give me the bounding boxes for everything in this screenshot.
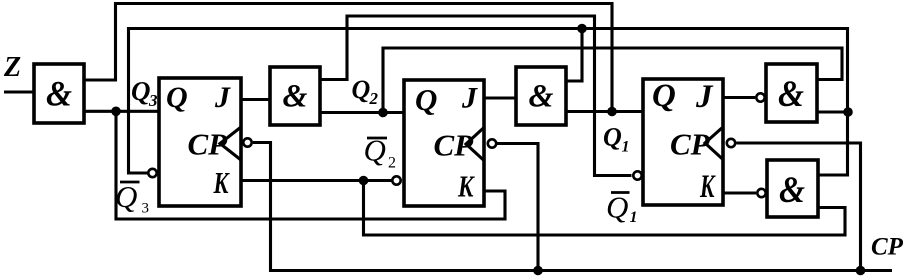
and-gate G2 box: [270, 67, 320, 125]
svg-text:J: J: [214, 81, 231, 114]
svg-text:Q: Q: [415, 82, 437, 117]
wire net Q3bar: FF1 Qbar bubble up to rail y28.5 across to gate G5 upper pin: [129, 29, 848, 176]
wire net Q2 branch: node up to rail y48 across and down to gate G4 upper pin: [383, 48, 842, 113]
svg-text:1: 1: [630, 209, 638, 226]
FF3 Qbar output bubble: [633, 171, 641, 179]
wire J input of FF2 from gate G3 output: [484, 96, 516, 99]
wire net CP branch to FF2 CP bubble: [497, 144, 539, 271]
wire J input of FF1 from gate G2 output: [241, 98, 270, 101]
svg-text:K: K: [699, 169, 715, 205]
FF3 CP inversion bubble: [727, 139, 735, 147]
and-gate G5 box: [767, 160, 818, 217]
gate G4 output inversion bubble: [756, 93, 764, 101]
svg-text:CP: CP: [871, 234, 904, 261]
svg-text:&: &: [529, 79, 554, 115]
svg-text:Q: Q: [603, 123, 622, 152]
label net Q2bar overbar: [367, 137, 387, 140]
svg-text:1: 1: [622, 139, 630, 156]
svg-text:K: K: [213, 165, 230, 200]
wire net Q3bar branch to gate G4 lower pin: [816, 110, 848, 113]
svg-text:3: 3: [142, 201, 150, 217]
junction node Q3 at gate G1 output: [111, 107, 121, 117]
FF2 CP inversion bubble: [488, 139, 496, 147]
svg-text:Q: Q: [364, 133, 386, 168]
svg-text:3: 3: [148, 91, 158, 110]
svg-text:CP: CP: [670, 127, 711, 162]
svg-text:K: K: [457, 169, 475, 204]
svg-text:2: 2: [369, 89, 379, 108]
junction node Q2bar at FF1 K wire: [359, 176, 369, 186]
FF3 CP edge-trigger triangle: [705, 127, 723, 160]
label net Q3bar overbar: [120, 181, 140, 184]
wire net Q3 branch: node to FF2 K input: [116, 111, 505, 219]
svg-text:Z: Z: [3, 52, 21, 83]
flip-flop FF2 box: [404, 80, 484, 206]
and-gate G4 box: [766, 64, 817, 122]
wire net Q1: FF3 Q to top rail to gate G1 upper input: [84, 4, 612, 112]
wire net Q2bar: FF1 K input to FF2 Qbar bubble: [241, 179, 392, 182]
svg-text:&: &: [283, 79, 308, 115]
wire net Q1: gate G3 lower pin to FF3 Q: [566, 110, 643, 113]
FF2 CP edge-trigger triangle: [466, 128, 484, 161]
wire net Q2bar branch: node down across to gate G5 lower pin: [364, 181, 846, 236]
FF1 Qbar output bubble: [148, 169, 156, 177]
junction node CP at FF3 branch: [856, 266, 866, 276]
junction node Q1 at FF3 Q line: [607, 107, 617, 117]
junction node Q3bar at gate G4 lower pin: [843, 107, 853, 117]
FF2 Qbar output bubble: [392, 176, 400, 184]
svg-text:CP: CP: [188, 127, 229, 162]
label net Q1bar overbar: [611, 191, 630, 194]
svg-text:Q: Q: [115, 179, 137, 214]
and-gate G3 box: [516, 67, 566, 125]
svg-text:Q: Q: [166, 81, 188, 114]
wire K input of FF3 from gate G5 output bubble: [723, 191, 756, 194]
junction node CP at FF2 branch: [533, 266, 543, 276]
svg-text:&: &: [779, 170, 805, 211]
svg-text:2: 2: [388, 155, 396, 172]
svg-text:&: &: [778, 74, 804, 115]
svg-text:CP: CP: [434, 128, 475, 163]
svg-text:Q: Q: [652, 78, 676, 114]
FF1 CP edge-trigger triangle: [220, 127, 241, 160]
svg-text:Q: Q: [606, 190, 628, 225]
wire net Q3: gate G1 lower pin to FF1 Q: [84, 110, 159, 113]
junction node Q3bar on rail: [577, 24, 587, 34]
junction node Q2 at FF2 Q line: [378, 108, 388, 118]
wire net CP: FF1 CP bubble to bottom rail to CP terminal: [253, 143, 892, 271]
flip-flop FF3 box: [643, 79, 723, 205]
wire net Q3bar branch to gate G3 upper pin: [566, 29, 582, 82]
svg-text:&: &: [46, 74, 72, 114]
svg-text:Q: Q: [352, 75, 371, 104]
wire J input of FF3 from gate G4 output bubble: [723, 96, 755, 99]
wire Z input: [4, 90, 34, 93]
svg-text:Q: Q: [131, 76, 151, 106]
and-gate G1 box: [34, 64, 84, 123]
svg-text:J: J: [461, 82, 478, 115]
flip-flop FF1 box: [159, 78, 241, 206]
wire net Q2: gate G2 lower pin to FF2 Q: [320, 111, 404, 114]
svg-text:J: J: [695, 79, 714, 115]
FF1 CP inversion bubble: [243, 138, 251, 146]
wire net CP branch to FF3 CP bubble: [737, 143, 861, 271]
gate G5 output inversion bubble: [757, 189, 765, 197]
wire net Q1bar: gate G2 upper pin up to rail y16 across and down to FF3 Qbar bubble: [320, 16, 632, 176]
